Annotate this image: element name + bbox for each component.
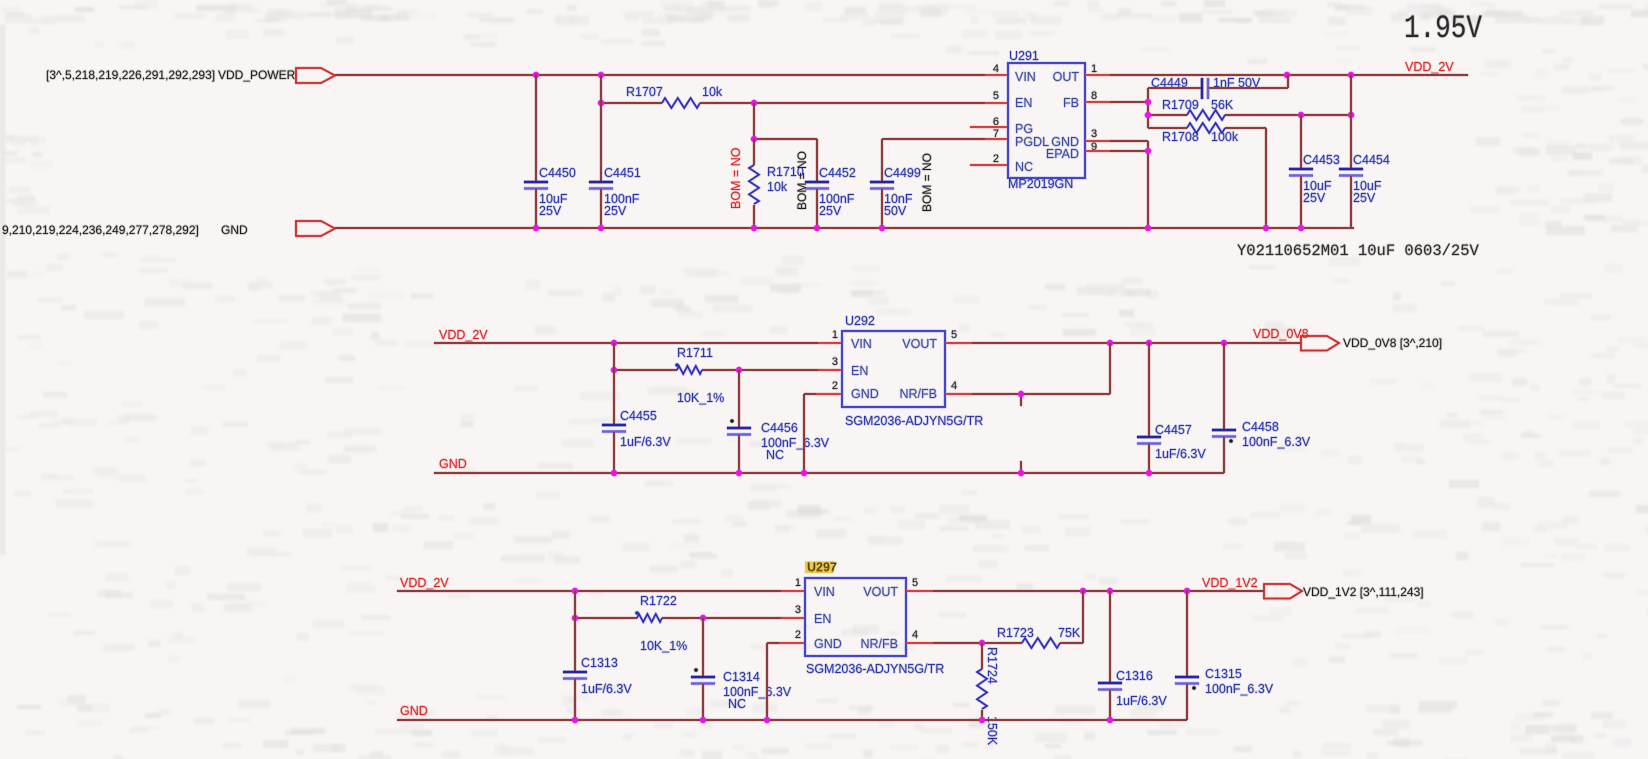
resistor R1711 (675, 346, 724, 405)
resistor R1708 (1162, 123, 1239, 144)
wire VDD_2V (bottom) (397, 588, 805, 594)
wire EN net (U291 pin 5) (598, 100, 1008, 106)
capacitor C4456 (727, 370, 830, 473)
wire R1710 / C4452 branch (751, 103, 817, 182)
resistor R1709 (1162, 98, 1234, 120)
capacitor C4457 (1137, 343, 1206, 473)
off-page connector VDD_POWER (296, 68, 335, 83)
resistor R1723 (997, 626, 1081, 648)
off-page connector VDD_0V8 (1301, 336, 1339, 351)
capacitor C4452 (805, 166, 856, 228)
wire U291 GND/EPAD (pins 3,9) (1085, 141, 1151, 228)
IC U292 SGM2036 (842, 314, 983, 428)
capacitor C4455 (602, 343, 671, 473)
wire U297 GND pin (pin 2) (767, 643, 805, 720)
capacitor C4458 (1212, 343, 1311, 473)
wire VOUT net to VDD_0V8 (945, 340, 1301, 346)
wire VDD_POWER bus (335, 72, 1008, 78)
capacitor C1314 (691, 618, 792, 720)
capacitor C1313 (563, 591, 632, 720)
wire GND bus (bottom) (397, 717, 1187, 723)
pin stub NC (pin 2) (970, 164, 1008, 166)
wire FB node (1085, 88, 1354, 228)
wire NR/FB net (U292 pin 4) (945, 343, 1110, 406)
resistor R1722 (635, 594, 687, 653)
wire U292 GND pin (pin 2) (804, 394, 842, 473)
IC U297 SGM2036 (805, 561, 944, 677)
capacitor C4451 (589, 75, 641, 228)
wire OUT net to VDD_2V (1085, 72, 1468, 78)
capacitor C4449 (1148, 75, 1288, 99)
wire VDD_2V (middle) (434, 340, 842, 346)
pin stub PG (pin 6) (970, 126, 1008, 128)
capacitor C4454 (1339, 75, 1390, 228)
capacitor C4499 (870, 166, 921, 228)
capacitor C1316 (1098, 591, 1167, 720)
off-page connector GND (296, 221, 335, 236)
resistor R1710 (749, 139, 804, 228)
resistor R1707 (626, 85, 723, 108)
off-page connector VDD_1V2 (1264, 584, 1302, 599)
wire GND bus (top) (335, 225, 1354, 231)
resistor R1724 (977, 643, 999, 746)
wire EN net (U292 pin 3) (611, 367, 842, 373)
wire GND bus (middle) (434, 461, 1224, 476)
capacitor C1315 (1175, 591, 1274, 720)
wire NR/FB net (U297 pin 4) (906, 591, 1083, 646)
wire VOUT net to VDD_1V2 (906, 588, 1264, 594)
wire PGDL net (U291 pin 7) (882, 139, 1008, 182)
capacitor C4450 (524, 75, 576, 228)
IC U291 MP2019GN (1008, 49, 1085, 191)
wire EN net (U297 pin 3) (572, 615, 805, 621)
capacitor C4453 (1289, 115, 1340, 228)
